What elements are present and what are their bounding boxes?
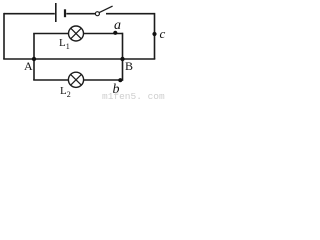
label node b xyxy=(113,83,120,97)
node B junction dot xyxy=(120,57,124,61)
wire L1 branch left vertical xyxy=(33,34,35,60)
wire L2 branch left vertical xyxy=(33,59,35,80)
switch blade xyxy=(99,6,112,13)
wire L2 branch right horizontal xyxy=(84,79,123,81)
wire switch to top-right corner xyxy=(106,13,155,15)
node b dot xyxy=(118,78,122,82)
wire left edge xyxy=(3,13,5,59)
lamp L2 xyxy=(68,72,83,87)
watermark xyxy=(102,92,165,102)
label node A xyxy=(24,60,33,72)
node A junction dot xyxy=(32,57,36,61)
switch pivot circle xyxy=(95,12,99,16)
battery long plate xyxy=(55,3,57,22)
wire top-left segment xyxy=(4,13,55,15)
wire L2 branch right vertical xyxy=(122,59,124,81)
wire right edge xyxy=(154,13,156,59)
wire L2 branch left horizontal xyxy=(33,79,68,81)
label L1 xyxy=(59,38,70,51)
wire main row A-B xyxy=(3,58,155,60)
label node B xyxy=(125,60,133,72)
node c dot xyxy=(152,32,156,36)
label node a xyxy=(114,19,121,33)
wire L1 branch left horizontal xyxy=(33,33,68,35)
wire battery to switch xyxy=(66,13,95,15)
battery short plate xyxy=(64,9,66,17)
label L2 xyxy=(60,86,71,99)
node a dot xyxy=(113,31,117,35)
wire L1 branch right vertical xyxy=(122,33,124,59)
wire L1 branch right horizontal xyxy=(84,33,123,35)
lamp L1 xyxy=(69,26,84,41)
label node c xyxy=(160,27,166,40)
